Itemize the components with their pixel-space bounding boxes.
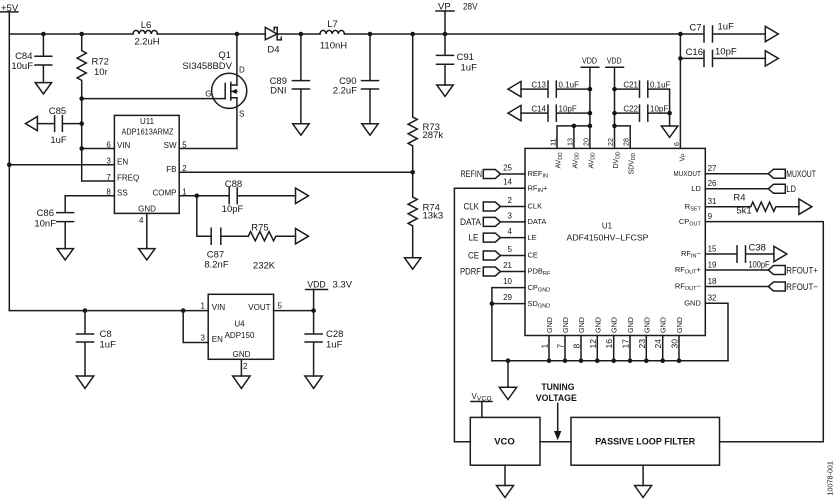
svg-text:COMP: COMP [153, 188, 177, 197]
svg-text:10nF: 10nF [34, 219, 56, 230]
svg-text:GND: GND [577, 317, 586, 333]
wire U4 EN from VIN node [183, 311, 208, 343]
svg-text:15: 15 [708, 244, 717, 253]
wire SS pin 8 [65, 195, 114, 197]
node junction rail/R73 [410, 32, 415, 37]
svg-text:C7: C7 [689, 23, 701, 34]
resistor R73 [408, 34, 443, 172]
node junction pin 13 tie [572, 124, 577, 129]
svg-text:C85: C85 [49, 106, 66, 117]
svg-text:R75: R75 [251, 223, 268, 234]
ground under C28 [305, 376, 322, 388]
svg-text:R72: R72 [92, 57, 109, 68]
svg-text:FB: FB [166, 165, 176, 174]
svg-text:12: 12 [588, 339, 598, 349]
connector PDRF with wire [460, 267, 525, 278]
capacitor C22 [615, 104, 670, 121]
svg-text:U4: U4 [234, 320, 245, 329]
connector CLK with wire [464, 202, 526, 213]
ground under C8 [76, 376, 93, 388]
svg-text:14: 14 [503, 178, 512, 187]
svg-text:20: 20 [581, 138, 590, 146]
connector REFIN with wire [461, 169, 526, 180]
svg-text:CE: CE [468, 251, 479, 262]
svg-text:17: 17 [621, 339, 631, 349]
node junction rail/C90 [368, 32, 373, 37]
node junction rail/Q1 drain [235, 32, 240, 37]
svg-text:C13: C13 [531, 80, 546, 89]
svg-text:0.1uF: 0.1uF [650, 80, 671, 89]
connector RFOUT- with wire [705, 282, 818, 293]
svg-text:GND: GND [684, 298, 701, 307]
U1 bottom pin numbers [540, 339, 680, 349]
svg-text:10uF: 10uF [11, 61, 33, 72]
connector LD with wire [705, 184, 796, 195]
wire SW pin 5 to Q1 source [179, 148, 237, 150]
svg-text:1uF: 1uF [100, 340, 117, 351]
capacitor C7 with off-page arrow [689, 22, 778, 43]
svg-text:C8: C8 [100, 329, 112, 340]
svg-text:VDD: VDD [307, 279, 326, 290]
svg-text:4: 4 [139, 216, 144, 225]
wire GND bus under U1 [492, 360, 728, 362]
svg-text:32: 32 [708, 294, 717, 303]
svg-text:100pF: 100pF [749, 260, 770, 271]
svg-text:31: 31 [708, 197, 717, 206]
connector RFOUT+ with wire [705, 265, 818, 276]
svg-text:U11: U11 [140, 117, 155, 126]
svg-text:TUNING: TUNING [541, 382, 574, 393]
svg-text:LD: LD [786, 184, 796, 195]
node VVCO symbol [471, 392, 492, 417]
node junction rail/VP pin 6 drop [678, 32, 683, 37]
svg-text:C88: C88 [225, 179, 242, 190]
wire COMP branch down [197, 196, 211, 236]
wire GND pin 4 of U11 [146, 213, 148, 248]
wire U4 GND pin 2 [240, 359, 242, 376]
svg-text:C91: C91 [457, 52, 474, 63]
svg-text:ADP1613ARMZ: ADP1613ARMZ [122, 128, 174, 137]
ground under loop filter [642, 465, 644, 485]
svg-text:DATA: DATA [460, 217, 482, 228]
svg-text:1uF: 1uF [461, 63, 478, 74]
svg-text:C22: C22 [623, 104, 638, 113]
capacitor C84 [11, 34, 51, 83]
node TUNING VOLTAGE label with arrow [536, 382, 577, 440]
capacitor C86 [34, 196, 73, 249]
wire AVDD tie pins 11,13,20 [557, 126, 590, 148]
ground under C90 [362, 124, 378, 135]
capacitor C89 [270, 34, 310, 124]
wire +5V vertical left rail [8, 13, 10, 311]
connector LE with wire [469, 233, 526, 244]
svg-text:ADF4150HV–LFCSP: ADF4150HV–LFCSP [567, 234, 649, 243]
svg-text:G: G [205, 90, 211, 99]
svg-text:9: 9 [708, 212, 713, 221]
ground under C89 [293, 124, 309, 135]
svg-text:GND: GND [642, 317, 651, 333]
wire DVDD tie pins 22,28 [615, 126, 631, 148]
capacitor C14 with off-page arrow [508, 104, 590, 121]
svg-text:1uF: 1uF [326, 340, 343, 351]
svg-text:C14: C14 [531, 104, 546, 113]
svg-text:C28: C28 [326, 329, 343, 340]
resistor R75 with off-page arrow [248, 223, 308, 272]
svg-text:VOLTAGE: VOLTAGE [536, 393, 577, 404]
svg-text:6: 6 [672, 142, 681, 146]
svg-text:LD: LD [691, 184, 701, 193]
capacitor C13 with off-page arrow [508, 80, 590, 97]
node junctions on DVDD line [612, 87, 617, 92]
ground under C91 [437, 85, 453, 96]
svg-text:5: 5 [508, 245, 513, 254]
svg-text:3: 3 [106, 157, 111, 166]
svg-text:2.2uF: 2.2uF [333, 86, 357, 97]
svg-text:GND: GND [561, 317, 570, 333]
ground under U4 pin 2 [233, 376, 250, 388]
svg-text:GND: GND [659, 317, 668, 333]
svg-text:VOUT: VOUT [248, 303, 270, 312]
svg-text:3: 3 [508, 211, 513, 220]
svg-text:U1: U1 [602, 222, 613, 231]
node junction VIN [79, 146, 84, 151]
svg-text:C38: C38 [749, 243, 766, 254]
capacitor C16 with off-page arrow [680, 47, 778, 67]
svg-text:30: 30 [670, 339, 680, 349]
ground under GND bus [507, 361, 509, 388]
wire top rail segment 2 (L6 to D4) [157, 33, 265, 35]
wire CPOUT pin 9 to loop filter [705, 222, 823, 442]
wire VOUT pin 5 to VDD [274, 310, 314, 312]
svg-text:10pF: 10pF [559, 104, 577, 113]
svg-text:D4: D4 [267, 45, 279, 56]
node junction COMP [195, 194, 200, 199]
svg-text:MUXOUT: MUXOUT [673, 169, 701, 178]
svg-text:10pF: 10pF [715, 47, 737, 58]
node VDD supply symbol (AVDD group) [581, 56, 599, 148]
node VDD supply symbol 3.3V [306, 279, 353, 310]
svg-text:PASSIVE LOOP FILTER: PASSIVE LOOP FILTER [595, 437, 695, 448]
wire +5V down rail to U4 VIN [9, 310, 208, 312]
svg-text:L6: L6 [141, 20, 152, 31]
svg-text:11: 11 [549, 139, 558, 146]
diode D4 schottky [265, 27, 281, 55]
svg-text:3.3V: 3.3V [333, 280, 353, 291]
node VP supply symbol [436, 2, 478, 35]
svg-text:5k1: 5k1 [736, 206, 751, 217]
node junction VOUT/VDD/C28 [311, 308, 316, 313]
capacitor C8 [77, 311, 117, 376]
capacitor C21 [615, 80, 671, 126]
op-amp U4 ADP150 box [201, 294, 283, 371]
svg-text:GND: GND [545, 317, 554, 333]
svg-text:1uF: 1uF [718, 22, 735, 33]
resistor R72 [77, 34, 109, 99]
node junction VP line/C16 [678, 56, 683, 61]
svg-text:29: 29 [503, 293, 512, 302]
svg-text:8.2nF: 8.2nF [204, 260, 228, 271]
svg-text:13k3: 13k3 [423, 211, 444, 222]
U1 bottom pin names GND rotated [545, 317, 684, 333]
node junction SDGND [490, 301, 495, 306]
wire vertical from R72 down to FREQ [82, 99, 115, 181]
svg-text:C86: C86 [37, 208, 54, 219]
U1 right pin names [673, 169, 701, 308]
svg-text:GND: GND [138, 205, 156, 214]
svg-text:28V: 28V [463, 2, 478, 13]
transistor Q1 SI3458BDV [182, 34, 246, 149]
svg-text:0.1uF: 0.1uF [559, 80, 580, 89]
node junction rail/VP [443, 32, 448, 37]
wire GND pin 32 [705, 303, 728, 361]
node junctions on GND bus [547, 358, 552, 363]
svg-text:REFIN: REFIN [461, 169, 483, 180]
svg-text:SI3458BDV: SI3458BDV [182, 61, 232, 72]
svg-text:DATA: DATA [528, 217, 547, 226]
U1 top pin numbers [549, 138, 681, 146]
svg-text:16: 16 [604, 339, 614, 349]
wire SDGND pin 29 [492, 303, 525, 305]
svg-text:2: 2 [243, 362, 248, 371]
svg-text:VDD: VDD [607, 56, 622, 65]
svg-text:23: 23 [637, 339, 647, 349]
capacitor C90 [333, 34, 379, 124]
connector MUXOUT with wire [705, 169, 816, 180]
inductor L7 [320, 19, 347, 52]
capacitor C88 with off-page arrow [222, 179, 309, 215]
svg-text:RFOUT+: RFOUT+ [786, 265, 818, 276]
connector CE with wire [468, 251, 525, 262]
node junction C22 ground line [667, 111, 672, 116]
svg-text:C16: C16 [686, 47, 703, 58]
resistor R74 [408, 172, 443, 257]
op-amp U1 ADF4150HV-LFCSP box [525, 148, 705, 335]
svg-text:CE: CE [528, 251, 538, 260]
wire EN pin 3 from left rail [9, 164, 114, 166]
U1 left pin names [528, 169, 551, 309]
inductor L6 [133, 20, 160, 48]
svg-text:LE: LE [469, 233, 479, 244]
svg-text:GND: GND [593, 317, 602, 333]
wire top rail segment 1 (+5V to L6) [9, 33, 133, 35]
svg-text:25: 25 [503, 163, 512, 172]
node junction U4 EN branch [181, 308, 186, 313]
wire GND pin stubs [549, 336, 679, 361]
wire RFIN+ pin 14 down to VCO [454, 188, 525, 442]
op-amp PASSIVE LOOP FILTER box [571, 417, 720, 465]
node junction rail/C84 [41, 32, 46, 37]
svg-text:R4: R4 [733, 193, 745, 204]
op-amp VCO box [470, 417, 540, 465]
ground under R74 [405, 258, 421, 269]
svg-text:MUXOUT: MUXOUT [786, 169, 816, 180]
svg-text:GND: GND [675, 317, 684, 333]
wire VP drop to U1 pin 6 [679, 34, 681, 148]
svg-text:10: 10 [503, 277, 512, 286]
svg-text:2.2uH: 2.2uH [134, 37, 159, 48]
wire FB pin 2 to R73/R74 node [179, 171, 413, 173]
capacitor C28 [305, 311, 343, 376]
svg-text:110nH: 110nH [320, 41, 347, 52]
wire top rail segment 3 (D4 to L7) [277, 33, 320, 35]
wire top rail segment 4 (L7 to C7) [344, 33, 704, 35]
svg-text:8: 8 [106, 188, 111, 197]
node junctions on AVDD line [588, 87, 593, 92]
wire VCO to loop filter [540, 441, 571, 443]
capacitor C91 [437, 34, 478, 85]
svg-text:7: 7 [106, 173, 111, 182]
svg-text:C21: C21 [623, 80, 638, 89]
svg-text:GND: GND [626, 317, 635, 333]
node junction C85 [79, 121, 84, 126]
svg-text:FREQ: FREQ [117, 174, 139, 183]
U1 left pin numbers [503, 163, 512, 302]
svg-text:28: 28 [622, 138, 631, 146]
svg-text:PDRF: PDRF [460, 267, 481, 278]
svg-text:10078-001: 10078-001 [826, 461, 835, 495]
svg-text:2: 2 [182, 164, 187, 173]
svg-text:21: 21 [503, 261, 512, 270]
svg-text:1: 1 [540, 344, 550, 349]
node junction left rail / EN [7, 163, 12, 168]
node junction C8 [83, 308, 88, 313]
wire CPGND pin 10 [492, 288, 525, 361]
wire gate of Q1 [82, 98, 226, 100]
svg-text:27: 27 [708, 164, 717, 173]
svg-text:8: 8 [572, 344, 582, 349]
svg-text:10pF: 10pF [222, 204, 244, 215]
svg-text:RFOUT−: RFOUT− [786, 282, 818, 293]
svg-text:GND: GND [610, 317, 619, 333]
svg-text:6: 6 [106, 140, 111, 149]
svg-text:EN: EN [117, 157, 128, 166]
ground under U11 pin 4 [139, 249, 155, 260]
U1 top pin names rotated [556, 151, 688, 174]
ground under C21/C22 [661, 126, 677, 137]
node junction rail/R72 [79, 32, 84, 37]
svg-text:1uF: 1uF [50, 135, 67, 146]
svg-text:4: 4 [508, 227, 513, 236]
svg-text:232K: 232K [253, 261, 276, 272]
resistor R4 with off-page arrow [705, 193, 812, 217]
svg-text:19: 19 [708, 260, 717, 269]
svg-text:CLK: CLK [464, 202, 480, 213]
ground under C86 [57, 249, 73, 260]
svg-text:3: 3 [201, 334, 206, 343]
svg-text:VIN: VIN [212, 303, 226, 312]
svg-text:22: 22 [606, 138, 615, 146]
svg-text:26: 26 [708, 179, 717, 188]
svg-text:ADP150: ADP150 [225, 331, 255, 340]
svg-text:DNI: DNI [270, 86, 286, 97]
node junction R72 / gate wire [79, 96, 84, 101]
svg-text:EN: EN [212, 335, 223, 344]
svg-text:24: 24 [653, 339, 663, 349]
svg-text:CLK: CLK [528, 202, 543, 211]
node junction rail/C89 [299, 32, 304, 37]
node junction FB / R73 / R74 [410, 170, 415, 175]
svg-text:S: S [239, 110, 244, 119]
svg-text:GND: GND [233, 350, 251, 359]
capacitor C85 with off-page arrow [26, 106, 82, 146]
wire VIN pin 6 [82, 148, 115, 150]
node +5V supply symbol [1, 3, 19, 14]
svg-text:287k: 287k [423, 130, 444, 141]
svg-text:10pF: 10pF [650, 104, 668, 113]
svg-text:VIN: VIN [117, 141, 131, 150]
capacitor C87 [204, 228, 248, 270]
svg-text:D: D [239, 66, 245, 75]
svg-text:VDD: VDD [582, 56, 597, 65]
svg-text:2: 2 [508, 196, 513, 205]
svg-text:SS: SS [117, 188, 128, 197]
svg-text:LE: LE [528, 233, 537, 242]
svg-text:5: 5 [278, 302, 283, 311]
svg-text:L7: L7 [327, 19, 338, 30]
op-amp U11 ADP1613ARMZ box [106, 115, 187, 225]
svg-text:VCO: VCO [494, 437, 515, 448]
U1 right pin numbers [708, 164, 717, 303]
svg-text:SW: SW [164, 141, 177, 150]
svg-text:18: 18 [708, 277, 717, 286]
svg-text:7: 7 [556, 344, 566, 349]
connector DATA with wire [460, 217, 525, 228]
ground under VCO [504, 465, 506, 485]
svg-text:1: 1 [201, 302, 206, 311]
ground under C84 [35, 83, 51, 94]
capacitor C38 with off-page arrow [705, 243, 787, 271]
svg-text:10r: 10r [94, 67, 108, 78]
svg-text:13: 13 [565, 138, 574, 146]
svg-text:Q1: Q1 [218, 50, 231, 61]
wire COMP pin 1 [179, 195, 229, 197]
node VDD supply symbol (DVDD group) [606, 56, 624, 148]
